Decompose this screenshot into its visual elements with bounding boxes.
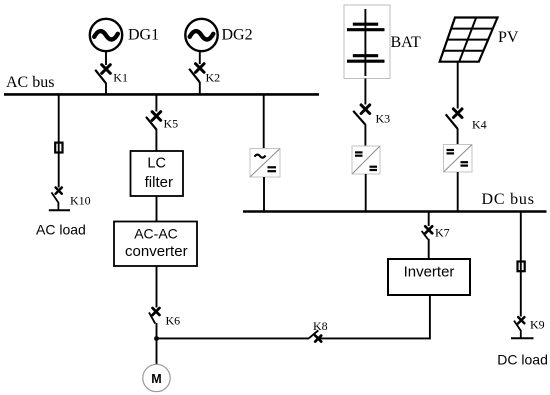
terminal DC load bbox=[511, 337, 534, 339]
wire converter U3 to DC bus bbox=[457, 172, 459, 212]
switch K1 bbox=[95, 65, 110, 94]
terminal AC load bbox=[49, 209, 70, 211]
wire DC bus to K7 bbox=[428, 212, 430, 227]
wire converter U1 to DC bus bbox=[263, 177, 265, 212]
switch K2 bbox=[189, 64, 204, 94]
wire K8 to inverter drop bbox=[320, 337, 430, 339]
fuse F1 bbox=[55, 143, 62, 153]
wire converter U2 to DC bus bbox=[365, 174, 367, 212]
wire AC bus to fuse F1 bbox=[58, 94, 60, 142]
AC bus bbox=[4, 93, 319, 96]
svg-text:AC bus: AC bus bbox=[6, 74, 54, 91]
AC-DC converter U1 bbox=[250, 149, 280, 178]
wire LC filter to AC-AC converter bbox=[156, 196, 158, 222]
wire AC-AC converter to K6 bbox=[156, 266, 158, 308]
wire inverter bottom drop bbox=[429, 295, 431, 339]
svg-text:DG1: DG1 bbox=[128, 27, 159, 44]
svg-text:DG2: DG2 bbox=[222, 27, 253, 44]
svg-text:DC bus: DC bus bbox=[482, 191, 535, 208]
switch K7 bbox=[422, 226, 433, 259]
switch K9 bbox=[514, 317, 524, 338]
svg-text:K10: K10 bbox=[70, 194, 91, 208]
svg-text:filter: filter bbox=[145, 174, 173, 191]
svg-text:M: M bbox=[151, 372, 161, 386]
switch K5 bbox=[146, 112, 161, 151]
wire BAT to K3 bbox=[364, 79, 366, 105]
svg-text:K7: K7 bbox=[435, 226, 450, 240]
svg-text:K6: K6 bbox=[166, 314, 181, 328]
svg-text:Inverter: Inverter bbox=[404, 264, 455, 281]
DC bus bbox=[243, 210, 547, 213]
battery BAT bbox=[347, 9, 385, 76]
wire AC bus to converter U1 bbox=[263, 94, 265, 148]
svg-text:K8: K8 bbox=[313, 319, 328, 333]
DC-DC converter U3 bbox=[444, 145, 473, 173]
svg-text:PV: PV bbox=[498, 29, 519, 46]
switch K3 bbox=[353, 105, 370, 146]
generator DG1 bbox=[90, 19, 122, 51]
wire junction to K8 bbox=[157, 337, 310, 339]
switch K4 bbox=[446, 109, 462, 145]
svg-text:K9: K9 bbox=[530, 318, 545, 332]
PV panel bbox=[440, 18, 498, 62]
wire DC bus to fuse F2 bbox=[520, 212, 522, 262]
LC filter box U5 bbox=[131, 151, 184, 196]
svg-text:LC: LC bbox=[147, 156, 166, 172]
svg-text:K4: K4 bbox=[472, 118, 487, 132]
AC-AC converter box U6 bbox=[114, 222, 197, 267]
battery BAT enclosure bbox=[344, 5, 390, 79]
svg-text:K5: K5 bbox=[164, 117, 179, 131]
motor M bbox=[143, 364, 170, 391]
svg-text:K2: K2 bbox=[206, 70, 221, 84]
svg-text:BAT: BAT bbox=[391, 34, 421, 51]
wire fuse F2 to K9 bbox=[520, 262, 522, 317]
svg-text:K3: K3 bbox=[376, 112, 391, 126]
wire fuse F1 to K10 bbox=[58, 143, 60, 188]
svg-text:AC-AC: AC-AC bbox=[134, 226, 178, 242]
node junction below K6 bbox=[154, 336, 159, 341]
DC-DC converter U2 bbox=[352, 146, 380, 174]
svg-text:DC load: DC load bbox=[497, 352, 548, 368]
wire AC bus to K5 bbox=[155, 94, 157, 111]
svg-text:K1: K1 bbox=[113, 70, 128, 84]
wire junction to motor M bbox=[156, 339, 158, 365]
wire DG1 to K1 bbox=[105, 52, 107, 66]
generator DG2 bbox=[185, 19, 217, 51]
wire PV to K4 bbox=[457, 62, 459, 109]
fuse F2 bbox=[518, 262, 525, 272]
wire DG2 to K2 bbox=[199, 52, 201, 65]
svg-text:AC load: AC load bbox=[36, 222, 86, 238]
switch K6 bbox=[149, 308, 160, 339]
svg-text:converter: converter bbox=[125, 243, 188, 260]
switch K8 bbox=[309, 330, 321, 341]
inverter box U4 bbox=[388, 259, 470, 295]
switch K10 bbox=[52, 188, 62, 210]
